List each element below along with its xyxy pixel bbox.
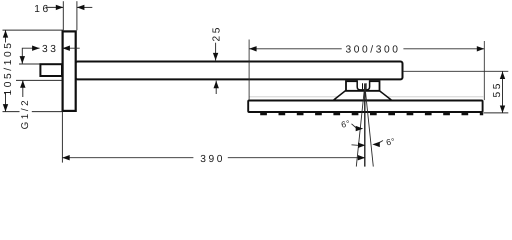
dimension 25: [215, 43, 217, 61]
node nut ticks: [363, 83, 367, 89]
svg-text:300/300: 300/300: [345, 45, 400, 56]
node head upper cover faint edge: [249, 96, 483, 98]
wire ext line 390 left: [61, 112, 63, 163]
svg-text:16: 16: [34, 4, 51, 15]
wire ext line 300 right: [483, 41, 485, 100]
node wall plate: [63, 31, 76, 111]
node G1/2 label: [20, 99, 32, 131]
node G1/2 supply nipple: [40, 64, 62, 76]
wire ext line nipple top: [19, 63, 40, 65]
node mount trapezoid: [334, 91, 392, 100]
svg-text:G1/2: G1/2: [20, 98, 31, 130]
wire ext line arm bottom left: [16, 79, 62, 81]
dimension 105/105 mid up arrow: [22, 80, 24, 97]
dimension 300/300: [249, 48, 342, 50]
wire ext line 55 bottom: [484, 112, 509, 114]
dimension 390: [62, 157, 193, 159]
wire spray right 6 deg: [365, 85, 374, 167]
wire spray left 6 deg: [356, 85, 365, 167]
dimension 55: [502, 72, 504, 114]
svg-text:55: 55: [492, 81, 503, 98]
dimension 16: [46, 6, 64, 8]
wire ext line 16 left: [62, 1, 64, 30]
wire ext line plate top: [3, 29, 64, 31]
dimension 33 bent leader: [22, 48, 39, 63]
dimension 6 deg right: [376, 141, 383, 145]
node nozzle dashes: [260, 113, 483, 116]
dimension 6 deg left: [352, 124, 359, 129]
wire ext line plate bottom: [3, 111, 62, 113]
dimension 6 deg left center arrow: [352, 144, 359, 147]
wire arm bar: [76, 62, 403, 80]
wire ext line 55 top: [403, 70, 508, 72]
node collar: [346, 81, 380, 91]
dimension 33 right arrow: [62, 47, 79, 49]
svg-text:390: 390: [200, 154, 225, 165]
wire ext line 300 left: [248, 40, 250, 101]
wire ext line 16 right: [76, 1, 78, 30]
svg-text:105/105: 105/105: [3, 40, 14, 95]
dimension 105/105: [5, 30, 7, 112]
node ball nut: [357, 80, 369, 90]
node shower head slab: [248, 101, 482, 113]
wire spray centerline: [364, 83, 366, 166]
svg-text:33: 33: [42, 44, 59, 55]
svg-text:25: 25: [212, 25, 223, 42]
